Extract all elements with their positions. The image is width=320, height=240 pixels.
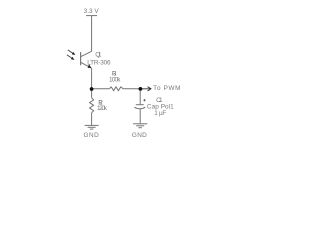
svg-text:3.3 V: 3.3 V bbox=[84, 8, 100, 15]
svg-text:GND: GND bbox=[84, 132, 100, 139]
svg-text:LTR-306: LTR-306 bbox=[87, 59, 111, 66]
svg-text:100k: 100k bbox=[109, 77, 121, 84]
svg-text:To PWM: To PWM bbox=[153, 85, 180, 92]
svg-text:120k: 120k bbox=[97, 105, 108, 112]
svg-text:Q1: Q1 bbox=[95, 51, 102, 58]
svg-text:GND: GND bbox=[132, 132, 147, 139]
svg-text:1 µF: 1 µF bbox=[154, 110, 166, 117]
